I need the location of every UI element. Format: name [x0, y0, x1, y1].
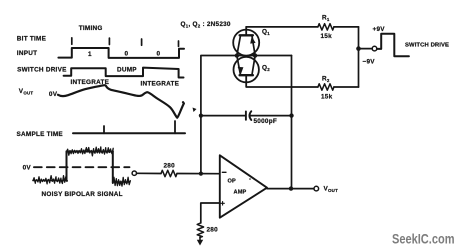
wire op-amp output	[267, 188, 314, 190]
wire R1 to drive rail	[334, 26, 359, 28]
wire input terminal to R 280	[137, 172, 161, 174]
svg-text:SWITCH DRIVE: SWITCH DRIVE	[17, 66, 67, 73]
sample time axis	[73, 132, 185, 134]
Q1 left leg	[237, 36, 241, 55]
transistor Q2	[234, 57, 259, 82]
Q2 left leg (emitter w/ arrow)	[237, 56, 241, 75]
Q1 label	[262, 29, 270, 37]
svg-text:BIT TIME: BIT TIME	[17, 35, 47, 42]
noisy signal right segment	[113, 177, 131, 186]
ground arrow	[199, 237, 201, 241]
bit time tick 1	[71, 38, 73, 45]
node: summing junction dot	[199, 172, 203, 176]
noisy signal left segment	[33, 176, 67, 184]
wire R280 to op-amp inverting input	[177, 173, 220, 175]
output terminal (open circle)	[314, 186, 319, 191]
0v label (input signal)	[23, 164, 32, 171]
integrate label 2	[141, 80, 180, 87]
vout waveform curve	[58, 85, 184, 118]
svg-text:280: 280	[207, 226, 219, 233]
wire Q1 base to R1	[246, 26, 318, 28]
+9V label	[373, 26, 386, 33]
0v label (timing)	[49, 91, 58, 98]
middle rail (switch bus)	[237, 55, 292, 57]
drive rail vertical	[358, 27, 360, 87]
svg-text:SAMPLE TIME: SAMPLE TIME	[17, 131, 64, 138]
node dot: switch bus left	[235, 53, 239, 57]
op-amp label	[228, 179, 247, 196]
input terminal (open circle)	[132, 171, 136, 175]
0v dashed baseline	[34, 166, 130, 168]
switch drive label (timing)	[17, 66, 67, 73]
bit time tick 2	[108, 38, 110, 44]
node dot: drive tap	[356, 46, 361, 51]
integrate label 1	[71, 79, 110, 86]
input bit value 0 (first)	[125, 51, 129, 58]
wire drive tap to terminal	[361, 48, 373, 50]
svg-text:TIMING: TIMING	[79, 25, 103, 32]
resistor R1 15k	[318, 24, 334, 30]
vout waveform arrow speck	[193, 108, 197, 113]
value label 5000pF	[254, 118, 278, 125]
-9V label	[363, 59, 376, 66]
capacitor C1 left plate	[245, 111, 247, 119]
svg-text:0V: 0V	[23, 164, 32, 171]
node dot: cap right	[289, 113, 293, 117]
resistor R2 15k	[318, 84, 334, 90]
svg-text:OP: OP	[228, 179, 237, 185]
noisy signal high baseline	[67, 151, 113, 153]
switch drive label (right)	[405, 43, 449, 49]
svg-text:Q1, Q2 : 2N5230: Q1, Q2 : 2N5230	[181, 21, 231, 29]
svg-text:1: 1	[88, 51, 92, 58]
input bit value 0 (second)	[157, 51, 161, 58]
node dot: output	[289, 186, 293, 190]
R1 value 15k	[321, 33, 333, 40]
R2 label	[322, 75, 330, 83]
op-amp plus sign	[221, 202, 225, 206]
Q2 base bar	[240, 74, 253, 76]
dump label	[117, 66, 137, 73]
noisy bipolar signal label	[42, 191, 123, 198]
noisy signal left baseline	[33, 180, 67, 182]
Q1 right leg (emitter w/ arrow)	[252, 36, 255, 55]
svg-text:+9V: +9V	[373, 26, 386, 33]
Q2 label	[262, 64, 270, 72]
noisy signal right baseline	[113, 181, 130, 183]
svg-text:INTEGRATE: INTEGRATE	[141, 80, 180, 87]
vout output label	[324, 186, 339, 194]
wire R2 to drive rail	[334, 86, 359, 88]
noisy signal rising edge	[66, 152, 68, 181]
drive terminal (open circle)	[372, 46, 377, 51]
timing label	[79, 25, 103, 32]
svg-text:0: 0	[125, 51, 129, 58]
svg-text:DUMP: DUMP	[117, 66, 137, 73]
right rail (output node)	[291, 56, 293, 189]
op-amp minus sign	[222, 171, 226, 173]
svg-text:280: 280	[164, 163, 176, 170]
Q1,Q2 type label	[181, 21, 231, 29]
input label	[17, 50, 37, 57]
switch drive pulse waveform	[377, 34, 409, 57]
switch drive waveform	[64, 68, 184, 78]
op-amp U1	[220, 155, 267, 217]
svg-text:0: 0	[157, 51, 161, 58]
resistor 280 (series input)	[161, 170, 177, 176]
node dot: cap left	[199, 114, 203, 118]
svg-text:AMP: AMP	[234, 190, 247, 196]
svg-text:15k: 15k	[321, 93, 333, 100]
sample tick 1	[103, 126, 105, 133]
svg-text:SeekIC.com: SeekIC.com	[392, 232, 455, 248]
svg-text:NOISY BIPOLAR SIGNAL: NOISY BIPOLAR SIGNAL	[42, 191, 123, 198]
Q1 base bar	[240, 34, 253, 36]
Q2 right leg	[252, 56, 255, 75]
op-amp internal dot	[249, 178, 251, 180]
sample time label	[17, 131, 64, 138]
svg-text:SWITCH DRIVE: SWITCH DRIVE	[405, 43, 449, 49]
bit time label	[17, 35, 47, 42]
capacitor C1 right plate	[249, 111, 251, 120]
bit time tick 4	[178, 41, 180, 46]
input waveform	[58, 48, 184, 58]
wire op-amp noninverting input	[201, 203, 220, 223]
R1 label	[322, 14, 330, 22]
wire cap right	[250, 115, 291, 117]
noisy signal high segment	[67, 147, 114, 156]
value label 280 (series)	[164, 163, 176, 170]
value label 280 (ground leg)	[207, 226, 219, 233]
svg-text:5000pF: 5000pF	[254, 118, 278, 125]
sample tick 2	[174, 121, 176, 133]
noisy signal falling edge	[112, 152, 114, 184]
node dot: switch bus right	[253, 53, 257, 57]
Q1 base stub	[245, 27, 247, 35]
svg-text:15k: 15k	[321, 33, 333, 40]
bit time tick 3	[141, 39, 143, 45]
input bit value 1	[88, 51, 92, 58]
svg-text:0V: 0V	[49, 91, 58, 98]
wire cap left	[201, 115, 246, 117]
svg-text:−9V: −9V	[363, 59, 376, 66]
left rail (inverting input node)	[201, 56, 237, 174]
svg-text:INPUT: INPUT	[17, 50, 37, 57]
R2 value 15k	[321, 93, 333, 100]
Q2 base stub + wire to R2	[246, 75, 318, 87]
vout timing label	[19, 88, 34, 96]
resistor 280 (to ground)	[197, 223, 203, 237]
transistor Q1	[233, 30, 259, 56]
